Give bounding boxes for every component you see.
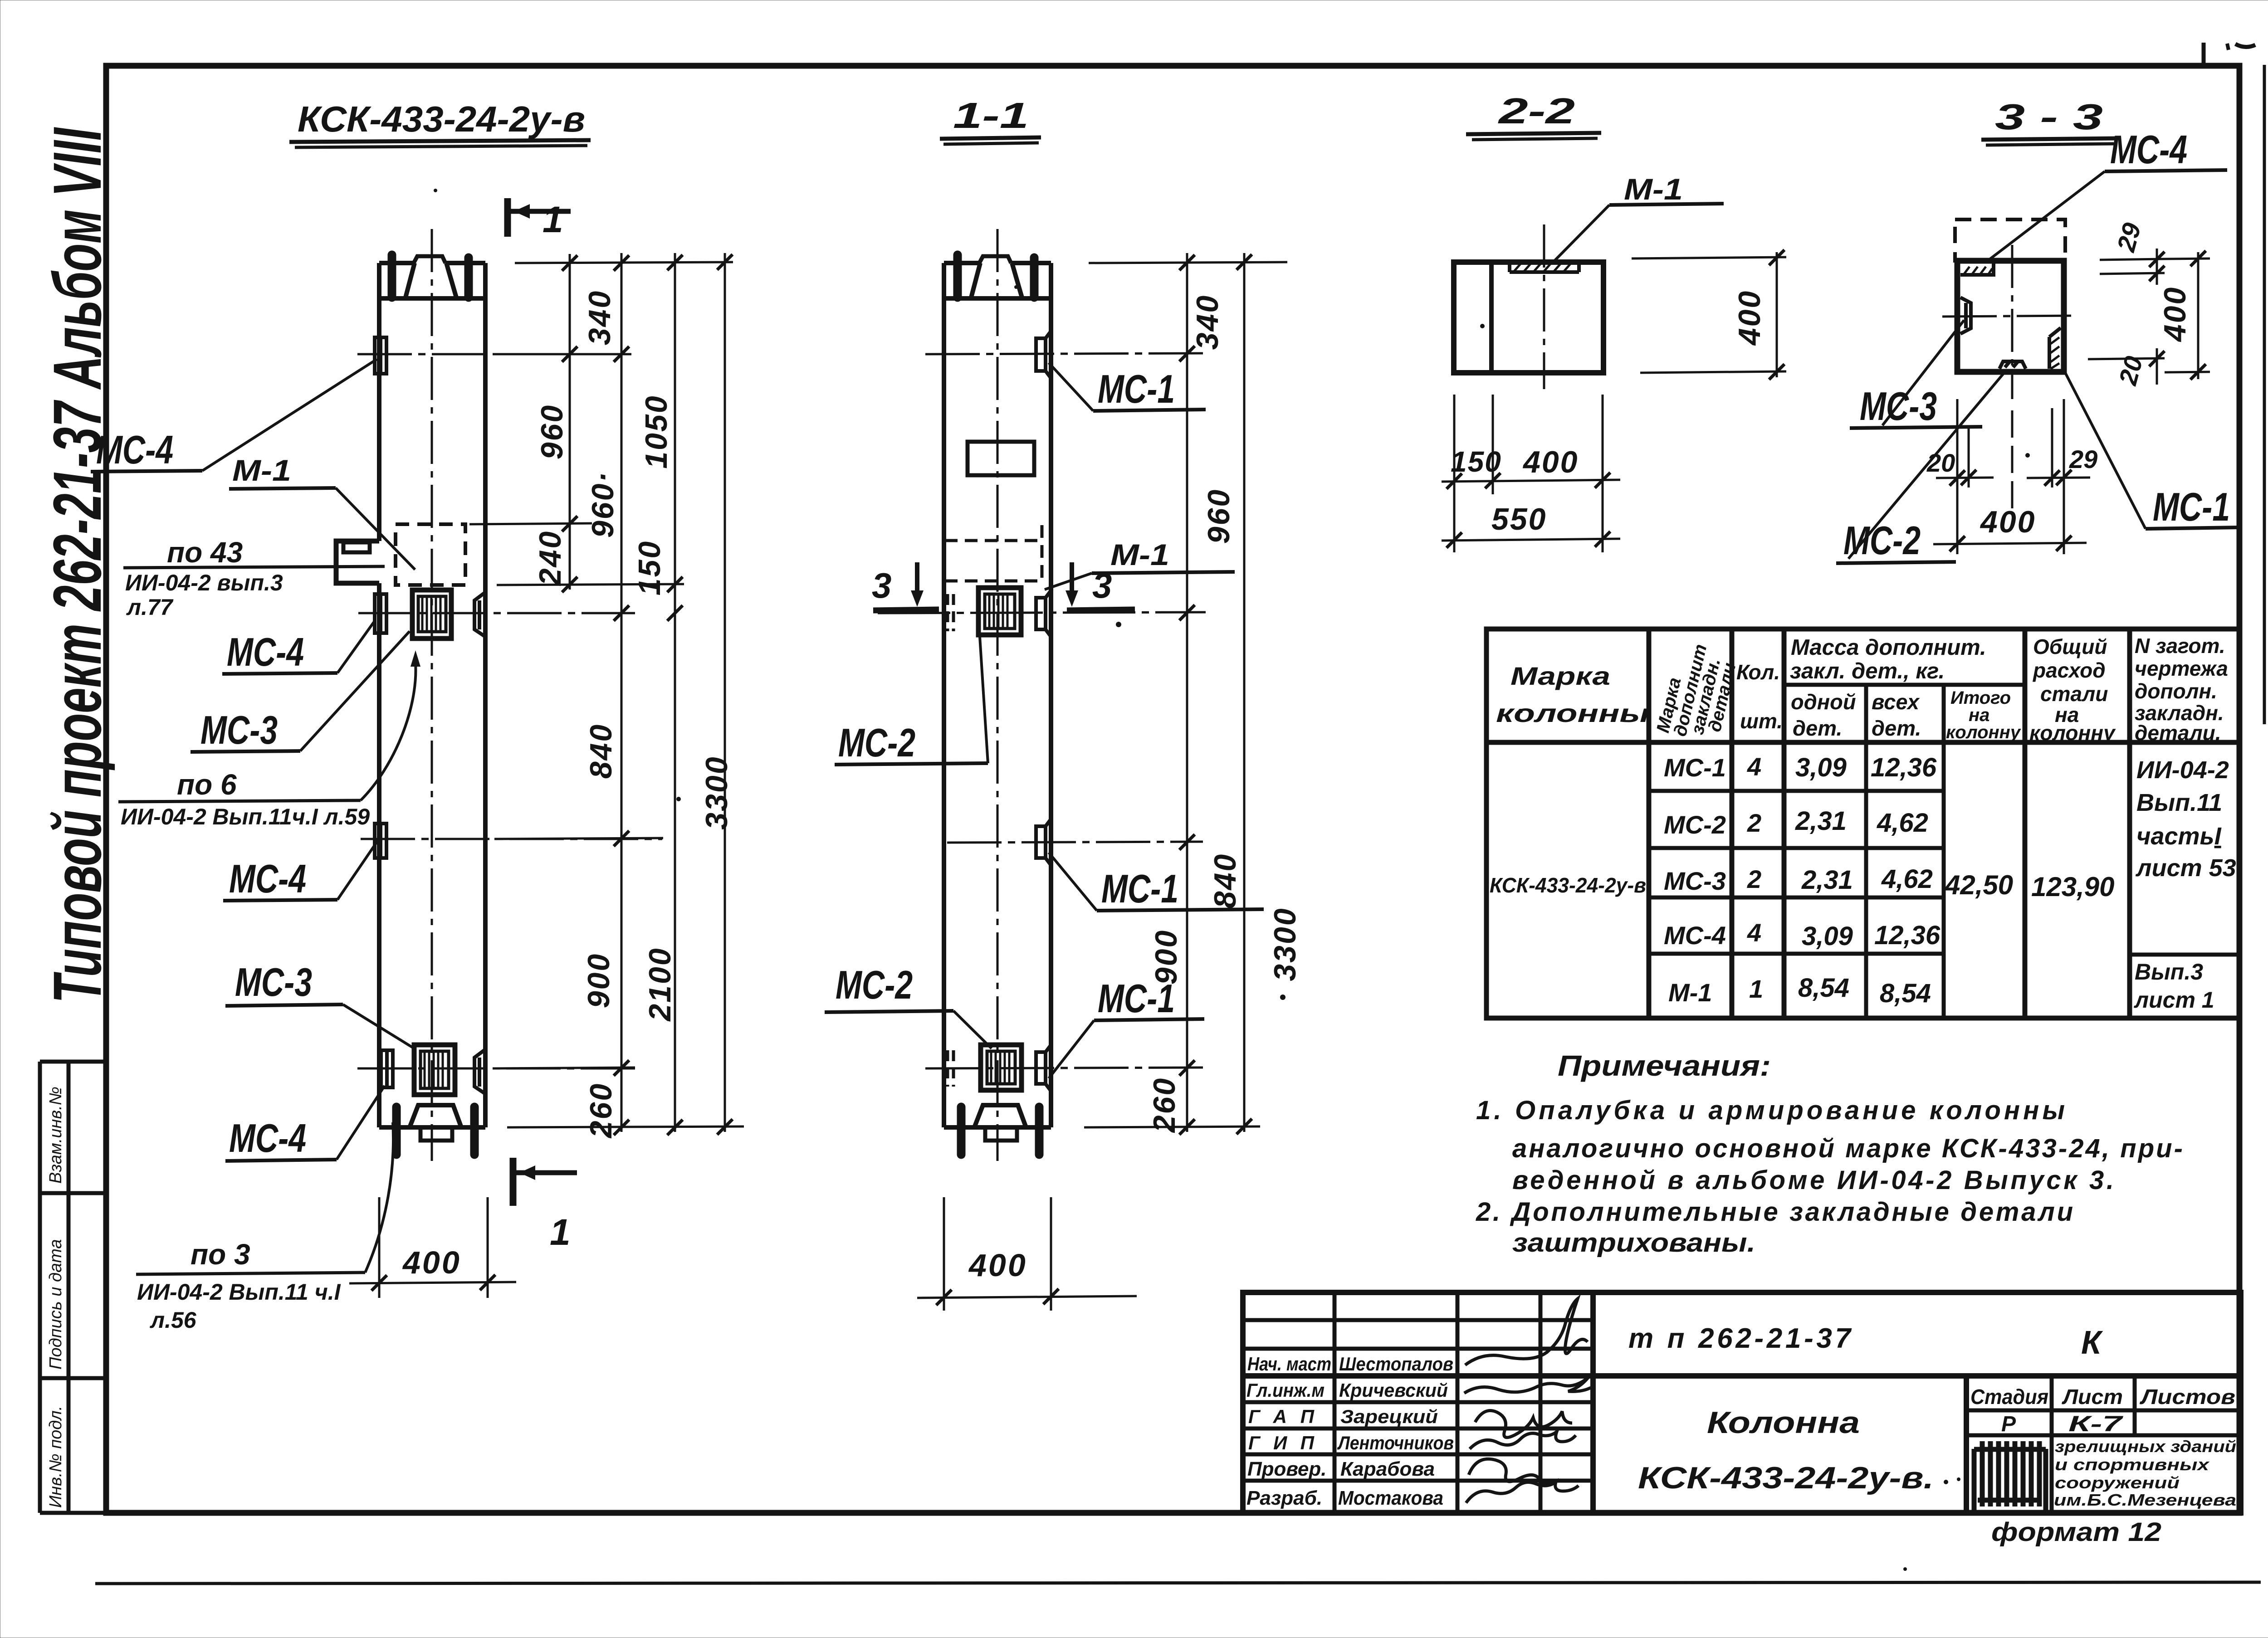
- svg-text:по 6: по 6: [177, 768, 237, 801]
- 3-3 hidden upper outline: [1955, 219, 2065, 261]
- svg-text:Нач. маст: Нач. маст: [1247, 1353, 1331, 1375]
- 1-1 plate МС-1 at axis 1: [1036, 331, 1051, 378]
- bottom tenon: [420, 1127, 452, 1141]
- 3-3 label МС-4: [1986, 127, 2227, 262]
- 2-2 label М-1: [1553, 172, 1724, 262]
- 1-1 top dowel left: [953, 255, 962, 297]
- svg-text:МС-4: МС-4: [229, 856, 306, 901]
- 3-3 plate МС-3 left middle: [1960, 297, 1971, 334]
- svg-text:960: 960: [1202, 488, 1236, 544]
- svg-text:веденной в альбоме ИИ-04-2: веденной в альбоме ИИ-04-2 Выпуск 3.: [1512, 1165, 2114, 1195]
- axis level 1: [357, 353, 631, 356]
- dimension line chain A: [569, 254, 571, 590]
- 3-3 dim 400 bottom: [1933, 543, 2087, 544]
- svg-text:4: 4: [1747, 752, 1761, 781]
- extension line top: [515, 262, 733, 263]
- embedded plate МС-4 at axis 1: [375, 337, 386, 374]
- svg-text:4,62: 4,62: [1881, 864, 1933, 894]
- svg-text:зрелищных зданий: зрелищных зданий: [2055, 1437, 2236, 1456]
- svg-text:1: 1: [543, 199, 563, 240]
- svg-text:им.Б.С.Мезенцева: им.Б.С.Мезенцева: [2054, 1491, 2236, 1509]
- label по 6 with reference: [118, 650, 420, 829]
- svg-text:Подпись и дата: Подпись и дата: [46, 1239, 65, 1370]
- svg-text:детали.: детали.: [2135, 721, 2221, 745]
- svg-text:840: 840: [1208, 853, 1242, 908]
- extension line axis4: [494, 1068, 635, 1068]
- svg-text:400: 400: [2158, 286, 2192, 342]
- svg-text:Зарецкий: Зарецкий: [1340, 1406, 1438, 1427]
- svg-text:Колонна: Колонна: [1707, 1405, 1860, 1440]
- svg-text:КСК-433-24-2у-в: КСК-433-24-2у-в: [1490, 873, 1646, 897]
- svg-text:2. Дополнительные закладные: 2. Дополнительные закладные детали: [1476, 1197, 2073, 1227]
- signature Кричевский: [1464, 1378, 1591, 1393]
- label по 3 with reference: [136, 1122, 393, 1333]
- svg-text:1-1: 1-1: [953, 95, 1029, 136]
- svg-text:2100: 2100: [643, 947, 677, 1022]
- 3-3 dim 20 lower right: [2088, 348, 2165, 385]
- svg-text:Кричевский: Кричевский: [1339, 1380, 1448, 1401]
- signature Мастакова: [1466, 1482, 1579, 1503]
- svg-text:Масса дополнит.: Масса дополнит.: [1791, 635, 1986, 660]
- 1-1 plate МС-1 at axis 3: [1036, 819, 1051, 865]
- svg-text:8,54: 8,54: [1798, 973, 1849, 1003]
- 1-1 top centering bump: [979, 256, 1011, 263]
- column shaft outline: [379, 263, 485, 1127]
- svg-text:МС-3: МС-3: [235, 960, 312, 1004]
- svg-text:240: 240: [533, 530, 567, 586]
- top-right corner tick: [2202, 43, 2206, 67]
- svg-text:960: 960: [535, 404, 569, 459]
- 1-1 dimension chain line: [1186, 253, 1188, 1132]
- svg-text:МС-4: МС-4: [229, 1116, 306, 1160]
- left filing strip table: [40, 1062, 106, 1513]
- svg-text:т п 262-21-37: т п 262-21-37: [1628, 1323, 1852, 1354]
- signature Карабова: [1469, 1459, 1555, 1484]
- svg-text:МС-3: МС-3: [200, 707, 278, 752]
- svg-text:и спортивных: и спортивных: [2055, 1455, 2210, 1474]
- svg-text:900: 900: [582, 953, 616, 1008]
- svg-text:л.56: л.56: [150, 1307, 197, 1333]
- 1-1 hidden plate edge left axis 4: [948, 1050, 953, 1087]
- top dowel left: [388, 255, 396, 297]
- 1-1 hatched plate МС-2 at axis 4: [981, 1045, 1022, 1090]
- label по 43 with reference: [123, 536, 385, 620]
- 1-1 label МС-1 no.2: [1049, 853, 1264, 911]
- svg-text:стали: стали: [2040, 682, 2108, 706]
- 1-1 bottom dowel right: [1035, 1107, 1044, 1155]
- svg-text:Примечания:: Примечания:: [1558, 1049, 1771, 1082]
- 3-3 label МС-1: [2065, 372, 2239, 529]
- 1-1 hidden plate edge left axis 2: [948, 594, 953, 631]
- bottom fork cut: [410, 1105, 461, 1127]
- 3-3 label МС-2: [1836, 372, 2005, 563]
- svg-text:2: 2: [1747, 865, 1761, 893]
- width dim 400 front view: [349, 1197, 516, 1298]
- svg-text:900: 900: [1149, 929, 1183, 985]
- svg-text:шт.: шт.: [1740, 709, 1783, 733]
- embedded plate M-1 hidden outline: [396, 524, 465, 585]
- 1-1 label МС-1 no.1: [1049, 363, 1206, 411]
- svg-text:1: 1: [1749, 975, 1763, 1003]
- bottom face line: [379, 1125, 485, 1130]
- signature Зарецкий: [1475, 1410, 1572, 1437]
- section mark 1 top: [508, 198, 571, 240]
- svg-text:ГИП: ГИП: [1248, 1432, 1315, 1453]
- 1-1 label М-1: [1045, 538, 1235, 590]
- svg-text:1. Опалубка и армирование к: 1. Опалубка и армирование колонны: [1476, 1096, 2065, 1125]
- svg-text:12,36: 12,36: [1874, 921, 1941, 950]
- 3-3 center line vertical: [2011, 245, 2014, 399]
- 3-3 plate МС-1 right strip: [2049, 328, 2061, 369]
- title block grid: [1243, 1292, 2241, 1513]
- dimension line chain C: [674, 253, 676, 1132]
- svg-text:Ленточников: Ленточников: [1337, 1432, 1454, 1453]
- svg-text:340: 340: [1190, 294, 1225, 350]
- extension line M-1 bottom: [497, 584, 684, 585]
- 1-1 plate МС-1 at axis 4: [1036, 1045, 1051, 1091]
- console notch plate: [343, 542, 370, 552]
- svg-text:550: 550: [1491, 502, 1547, 536]
- svg-text:3 - 3: 3 - 3: [1995, 97, 2103, 137]
- svg-text:МС-1: МС-1: [1098, 366, 1175, 411]
- svg-text:МС-1: МС-1: [1101, 866, 1178, 911]
- 3-3 body square: [1957, 261, 2064, 372]
- 3-3 dim 20 bottom left: [1936, 478, 1994, 478]
- svg-text:М-1: М-1: [1624, 172, 1683, 206]
- svg-text:2,31: 2,31: [1795, 806, 1847, 836]
- svg-text:л.77: л.77: [126, 595, 174, 620]
- dimension line overall D: [724, 253, 726, 1132]
- 1-1 label МС-2 no.1: [835, 637, 988, 765]
- embedded plate МС-4 at axis 4: [381, 1050, 393, 1087]
- 2-2 dim 400 right: [1632, 252, 1786, 377]
- svg-text:Марка: Марка: [1510, 662, 1610, 690]
- svg-text:ГАП: ГАП: [1248, 1406, 1315, 1427]
- svg-text:42,50: 42,50: [1945, 870, 2013, 900]
- svg-text:дет.: дет.: [1872, 716, 1921, 740]
- svg-text:3: 3: [872, 565, 891, 605]
- svg-text:Инв.№ подл.: Инв.№ подл.: [46, 1406, 65, 1508]
- svg-text:400: 400: [402, 1245, 461, 1280]
- label МС-4 no.3: [223, 840, 378, 901]
- scan specks: [1116, 622, 1121, 627]
- svg-text:МС-2: МС-2: [838, 720, 915, 765]
- svg-text:чертежа: чертежа: [2135, 657, 2228, 680]
- svg-text:400: 400: [1732, 290, 1767, 346]
- svg-text:ИИ-04-2 Вып.11 ч.I: ИИ-04-2 Вып.11 ч.I: [137, 1279, 341, 1305]
- extension line axis1 to dims: [494, 353, 631, 356]
- top fork cut: [379, 263, 485, 298]
- 2-2 body rectangle: [1454, 262, 1603, 373]
- label М-1 front: [229, 453, 415, 570]
- bottom dowel right: [470, 1107, 479, 1155]
- svg-text:400: 400: [1980, 505, 2036, 539]
- section mark 3 right: [1066, 562, 1135, 610]
- 3-3 plate МС-2 bottom center: [1999, 361, 2026, 369]
- 3-3 plate МС-4 top left: [1960, 261, 1994, 275]
- table grid: [1486, 629, 2239, 1018]
- svg-text:4,62: 4,62: [1877, 808, 1928, 838]
- svg-text:лист 53: лист 53: [2135, 854, 2236, 882]
- svg-text:840: 840: [584, 723, 618, 779]
- svg-text:Лист: Лист: [2062, 1385, 2123, 1409]
- svg-text:ИИ-04-2 Вып.11ч.I л.59: ИИ-04-2 Вып.11ч.I л.59: [121, 804, 370, 829]
- signature flourish top: [1465, 1299, 1588, 1365]
- svg-text:Вып.11: Вып.11: [2136, 789, 2222, 816]
- bottom scan edge line: [95, 1582, 2261, 1584]
- label МС-3 no.2: [225, 960, 413, 1048]
- svg-text:расход: расход: [2032, 658, 2106, 682]
- 1-1 bottom tenon: [985, 1127, 1017, 1141]
- svg-text:закл. дет., кг.: закл. дет., кг.: [1790, 659, 1945, 683]
- cropped sheet number 10: [2227, 44, 2229, 50]
- label МС-3 no.1: [191, 631, 410, 752]
- 3-3 dim 29 top right: [2100, 249, 2165, 285]
- svg-text:Мостакова: Мостакова: [1338, 1487, 1443, 1509]
- svg-text:по 3: по 3: [191, 1238, 250, 1271]
- svg-text:МС-3: МС-3: [1664, 867, 1726, 895]
- 1-1 shaft outline: [944, 263, 1051, 1127]
- svg-text:ИИ-04-2 вып.3: ИИ-04-2 вып.3: [125, 570, 283, 595]
- svg-text:Листов: Листов: [2140, 1385, 2235, 1409]
- 1-1 dimension overall line: [1243, 253, 1246, 1132]
- 3-3 dim 400 right: [2197, 252, 2200, 379]
- 1-1 top dowel right: [1030, 258, 1039, 297]
- logo ЦНИИЭП striped: [1974, 1441, 2046, 1511]
- svg-text:лист 1: лист 1: [2134, 987, 2214, 1013]
- axis level 2 (middle): [358, 612, 635, 614]
- dimension line chain B: [621, 253, 623, 1132]
- svg-text:400: 400: [1522, 445, 1579, 479]
- svg-text:Р: Р: [2001, 1412, 2016, 1436]
- svg-text:12,36: 12,36: [1871, 753, 1937, 782]
- 1-1 label МС-1 no.3: [1049, 976, 1204, 1078]
- svg-text:МС-2: МС-2: [1664, 810, 1726, 839]
- svg-text:Кол.: Кол.: [1736, 660, 1780, 684]
- svg-text:по 43: по 43: [167, 536, 243, 569]
- svg-text:29: 29: [2069, 445, 2097, 473]
- svg-text:Взам.инв.№: Взам.инв.№: [46, 1087, 65, 1184]
- extension line bottom: [507, 1126, 744, 1127]
- embedded plate МС-4 at axis 3: [375, 824, 386, 858]
- svg-text:8,54: 8,54: [1880, 979, 1931, 1008]
- svg-text:Вып.3: Вып.3: [2135, 959, 2203, 985]
- svg-text:Типовой проект 262-21-37 Ал: Типовой проект 262-21-37 Альбом VIII: [40, 127, 116, 1003]
- section mark 3 left: [872, 562, 939, 610]
- svg-text:960·: 960·: [586, 471, 620, 538]
- svg-text:заштрихованы.: заштрихованы.: [1512, 1228, 1755, 1258]
- 2-2 dim line 550: [1442, 539, 1620, 541]
- svg-text:150: 150: [632, 540, 667, 595]
- svg-text:М-1: М-1: [1668, 978, 1712, 1007]
- top centering bump: [414, 256, 445, 263]
- 1-1 hatched plate МС-2 at axis 2: [978, 588, 1021, 635]
- svg-text:2-2: 2-2: [1497, 91, 1575, 131]
- svg-text:N загот.: N загот.: [2135, 634, 2225, 658]
- svg-text:Шестопалов: Шестопалов: [1339, 1353, 1453, 1375]
- svg-text:М-1: М-1: [1110, 538, 1169, 571]
- 1-1 console end projection: [968, 442, 1034, 475]
- 1-1 axis level 4: [925, 1068, 1203, 1068]
- 1-1 plate МС-1 at axis 2: [1036, 590, 1051, 637]
- extension line M-1 top: [469, 523, 592, 524]
- extension line axis3: [494, 838, 663, 839]
- 2-2 center line: [1543, 224, 1545, 389]
- svg-text:К-7: К-7: [2068, 1412, 2124, 1436]
- svg-text:МС-1: МС-1: [1664, 753, 1726, 782]
- svg-text:Провер.: Провер.: [1247, 1458, 1326, 1480]
- svg-text:3300: 3300: [1268, 907, 1302, 981]
- svg-text:М-1: М-1: [232, 453, 291, 487]
- 3-3 dim 29 bottom right: [2027, 478, 2090, 478]
- svg-text:К: К: [2081, 1325, 2103, 1361]
- svg-text:400: 400: [968, 1248, 1027, 1283]
- svg-text:аналогично основной марке К: аналогично основной марке КСК-433-24, пр…: [1512, 1134, 2183, 1163]
- 3-3 axis horizontal: [1942, 316, 2077, 317]
- label МС-4 no.4: [225, 1086, 385, 1161]
- svg-text:одной: одной: [1791, 690, 1856, 714]
- svg-text:123,90: 123,90: [2031, 872, 2115, 902]
- svg-text:дополн.: дополн.: [2135, 679, 2217, 703]
- 1-1 bottom face: [944, 1125, 1051, 1130]
- svg-text:колонны: колонны: [1496, 699, 1649, 727]
- svg-text:260: 260: [584, 1082, 618, 1139]
- svg-text:КСК-433-24-2у-в.: КСК-433-24-2у-в.: [1638, 1461, 1934, 1495]
- hatched plate МС-3 at axis 2: [412, 590, 451, 639]
- 1-1 label МС-2 no.2: [825, 962, 992, 1048]
- svg-text:1: 1: [550, 1212, 571, 1253]
- stray dots: [1944, 1480, 1948, 1484]
- outer right trim line: [2263, 65, 2266, 724]
- 2-2 dim line 150/400: [1442, 480, 1620, 482]
- svg-text:20: 20: [1926, 448, 1955, 477]
- svg-text:4: 4: [1747, 918, 1761, 947]
- 2-2 bottom extension lines: [1454, 395, 1603, 552]
- svg-text:340: 340: [582, 290, 617, 345]
- 1-1 center line: [997, 229, 999, 1161]
- svg-text:МС-4: МС-4: [227, 629, 304, 674]
- svg-text:МС-4: МС-4: [96, 427, 173, 472]
- 1-1 axis level 3: [947, 842, 1203, 843]
- 1-1 axis level 2: [878, 612, 1206, 613]
- 2-2 console split line: [1489, 262, 1494, 373]
- svg-text:сооружений: сооружений: [2055, 1473, 2180, 1492]
- svg-text:дет.: дет.: [1793, 716, 1842, 740]
- svg-text:частьI: частьI: [2136, 823, 2222, 850]
- signature Ленточников: [1470, 1432, 1576, 1449]
- 3-3 bottom extensions: [1957, 399, 2064, 554]
- svg-text:3,09: 3,09: [1802, 921, 1853, 951]
- 1-1 extension line bottom: [1084, 1126, 1260, 1127]
- bottom dowel left: [392, 1107, 401, 1155]
- 2-2 plate М-1 hatched strip: [1510, 262, 1579, 272]
- hatched plate МС-3 at axis 4: [414, 1045, 455, 1095]
- svg-text:2,31: 2,31: [1801, 865, 1853, 895]
- svg-text:колонну: колонну: [2029, 721, 2116, 745]
- svg-text:Карабова: Карабова: [1340, 1458, 1435, 1480]
- svg-text:Стадия: Стадия: [1970, 1385, 2048, 1409]
- svg-text:Разраб.: Разраб.: [1246, 1487, 1322, 1509]
- 1-1 plate М-1 hidden lines: [945, 525, 1043, 583]
- svg-text:Гл.инж.м: Гл.инж.м: [1246, 1380, 1325, 1401]
- svg-text:ИИ-04-2: ИИ-04-2: [2136, 756, 2229, 784]
- embedded plate МС-4 at axis 2: [375, 594, 386, 633]
- svg-text:формат 12: формат 12: [1991, 1517, 2161, 1547]
- console bracket: [336, 541, 379, 583]
- section mark 1 bottom: [513, 1158, 577, 1253]
- svg-text:колонну: колонну: [1946, 722, 2021, 742]
- svg-text:КСК-433-24-2у-в: КСК-433-24-2у-в: [298, 99, 585, 139]
- svg-text:1050: 1050: [639, 395, 674, 468]
- svg-text:МС-4: МС-4: [1664, 921, 1726, 950]
- svg-text:Общий: Общий: [2033, 635, 2107, 658]
- svg-text:3,09: 3,09: [1795, 753, 1847, 782]
- svg-text:МС-2: МС-2: [1843, 518, 1921, 563]
- svg-text:150: 150: [1451, 445, 1502, 478]
- svg-text:29: 29: [2111, 220, 2146, 255]
- 1-1 axis level 1: [925, 353, 1207, 354]
- 1-1 top fork cut: [944, 263, 1051, 298]
- svg-text:МС-4: МС-4: [2110, 127, 2187, 172]
- column center line: [431, 229, 433, 1161]
- 1-1 bottom fork cut: [974, 1105, 1026, 1127]
- svg-text:МС-2: МС-2: [836, 962, 913, 1007]
- dovetail recess right edge axis 2: [474, 592, 485, 637]
- 3-3 label МС-3: [1850, 320, 1982, 429]
- label МС-4 no.2: [222, 622, 374, 674]
- axis level 4 (bottom): [357, 1068, 635, 1070]
- 1-1 bottom dowel left: [957, 1107, 966, 1155]
- label МС-4 no.1: [91, 359, 377, 472]
- axis level 3: [361, 838, 662, 840]
- svg-text:МС-1: МС-1: [2153, 484, 2230, 529]
- svg-text:3300: 3300: [699, 756, 734, 829]
- 1-1 extension line top: [1089, 262, 1287, 263]
- svg-text:260: 260: [1147, 1077, 1182, 1133]
- top dowel right: [464, 258, 473, 297]
- svg-text:всех: всех: [1872, 690, 1920, 714]
- dovetail recess right edge axis 4: [474, 1049, 485, 1094]
- svg-text:2: 2: [1747, 809, 1761, 837]
- 1-1 width dim 400: [917, 1197, 1137, 1311]
